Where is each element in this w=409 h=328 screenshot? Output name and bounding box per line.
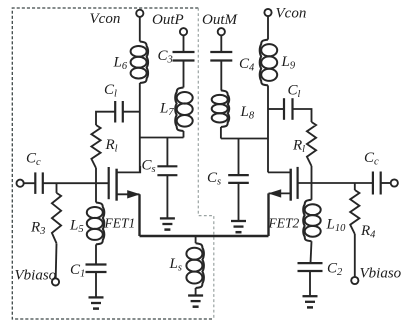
wire Ls tap — [195, 236, 197, 243]
svg-text:L5: L5 — [69, 218, 84, 236]
wire Rl-right to gate wire — [311, 166, 313, 183]
transistor FET2 gate bar — [297, 167, 299, 199]
ground below Cs right — [231, 221, 246, 232]
wire L10 to C2 — [311, 241, 312, 263]
wire Cs-left to ground — [166, 175, 168, 218]
svg-text:Rl: Rl — [292, 138, 305, 156]
wire R4 tap — [354, 183, 356, 190]
inductor L9 — [260, 40, 278, 86]
terminal Vbiaso right — [351, 277, 358, 284]
FET1 source arrow — [127, 190, 140, 198]
terminal Cc left — [17, 180, 24, 187]
svg-text:Vcon: Vcon — [90, 11, 121, 27]
terminal Vbiaso left — [52, 278, 59, 285]
ground below C1 — [89, 297, 104, 308]
wire gate wire right — [298, 182, 373, 184]
svg-text:Cl: Cl — [104, 82, 117, 100]
svg-text:L8: L8 — [240, 104, 255, 122]
wire L5 tap — [95, 183, 97, 202]
wire Cl-left to corner — [96, 112, 115, 125]
wire Cc-right to terminal — [381, 182, 391, 184]
inductor Ls — [186, 243, 204, 288]
transistor FET1 gate bar — [108, 167, 110, 199]
FET1 source lead — [117, 193, 140, 195]
wire L7 to junction line — [183, 131, 185, 138]
terminal Vcon left — [136, 10, 143, 17]
capacitor C2 — [298, 263, 323, 271]
svg-text:Vcon: Vcon — [276, 6, 307, 22]
inductor L5 — [87, 203, 105, 245]
capacitor C1 — [86, 265, 107, 273]
dashed boundary box left/top/bottom — [12, 8, 214, 319]
svg-text:FET2: FET2 — [268, 216, 300, 231]
wire Cs-right to ground — [238, 183, 240, 221]
terminal OutM — [218, 28, 225, 35]
wire C1 to ground — [95, 272, 97, 297]
transistor FET1 channel bar — [115, 169, 117, 201]
wire R3 tap — [56, 183, 58, 193]
wire left drain junction line — [140, 137, 184, 139]
svg-text:L9: L9 — [281, 54, 296, 72]
resistor Rl left — [91, 125, 100, 168]
terminal Vcon right — [264, 9, 271, 16]
wire OutM to C4 — [220, 35, 222, 52]
svg-text:C1: C1 — [70, 262, 85, 280]
capacitor Cs left — [157, 166, 177, 175]
wire Cs-left tap — [166, 138, 168, 167]
capacitor Cc right — [373, 172, 381, 195]
wire drain to Cl left — [123, 111, 140, 113]
svg-text:Cl: Cl — [288, 83, 301, 101]
FET2 source arrow — [268, 189, 281, 197]
wire source bus — [140, 235, 269, 237]
resistor R4 — [350, 190, 359, 234]
wire Cs-right tap — [238, 139, 240, 176]
svg-text:Cc: Cc — [26, 151, 41, 169]
terminal Cc right — [391, 179, 398, 186]
wire Vcon-left to L6 — [139, 17, 141, 42]
ground below Cs left — [160, 218, 175, 229]
wire L6 to drain corner (main left vertical) — [139, 83, 141, 172]
inductor L8 — [212, 90, 230, 127]
ground below C2 — [303, 296, 318, 307]
svg-text:R3: R3 — [30, 220, 45, 238]
wire Cl-right to corner — [293, 109, 312, 122]
capacitor C3 — [173, 52, 195, 61]
wire L5 to C1 — [95, 244, 97, 264]
wire L8 to junction line — [220, 127, 222, 139]
wire OutP to C3 — [183, 35, 185, 52]
wire gate wire left — [43, 182, 109, 184]
svg-text:C2: C2 — [327, 261, 343, 279]
svg-text:Rl: Rl — [105, 137, 118, 155]
wire C4 to L8 — [220, 61, 222, 91]
svg-text:FET1: FET1 — [104, 216, 136, 231]
svg-text:OutM: OutM — [202, 12, 239, 28]
wire Rl-left to gate wire — [95, 168, 97, 183]
svg-text:L10: L10 — [326, 217, 347, 235]
inductor L7 — [175, 88, 193, 132]
capacitor Cl right — [284, 98, 293, 120]
FET1 drain lead — [117, 166, 141, 172]
svg-text:L6: L6 — [113, 55, 128, 73]
svg-text:Cc: Cc — [364, 150, 379, 168]
terminal OutP — [180, 28, 187, 35]
wire C2 to ground — [309, 271, 311, 296]
inductor L10 — [303, 200, 321, 241]
wire Vcon-right to L9 — [267, 16, 269, 40]
capacitor Cs right — [228, 175, 249, 183]
dashed boundary notch — [198, 8, 214, 319]
wire L9 to drain corner (main right vertical) — [267, 85, 269, 172]
FET2 source lead — [269, 192, 291, 194]
svg-text:L7: L7 — [159, 101, 174, 119]
svg-text:OutP: OutP — [152, 12, 184, 28]
wire C3 to L7 — [183, 61, 185, 88]
svg-text:C4: C4 — [239, 56, 255, 74]
capacitor Cl left — [115, 101, 123, 123]
ground below Ls — [188, 296, 203, 307]
svg-text:Cs: Cs — [207, 170, 221, 188]
svg-text:R4: R4 — [360, 223, 376, 241]
wire L10 tap — [311, 183, 313, 200]
resistor Rl right — [307, 122, 316, 166]
wire Cc-left terminal to plates — [24, 182, 36, 184]
svg-text:C3: C3 — [158, 48, 173, 66]
wire right drain junction line — [221, 138, 268, 140]
svg-text:Cs: Cs — [142, 158, 156, 176]
capacitor C4 — [210, 52, 232, 61]
svg-text:Vbiaso: Vbiaso — [15, 268, 57, 284]
wire FET1 source down — [138, 194, 140, 236]
wire FET2 source down — [267, 193, 269, 236]
wire drain to Cl right — [268, 108, 284, 110]
transistor FET2 channel bar — [290, 169, 292, 201]
svg-text:Vbiaso: Vbiaso — [360, 266, 402, 282]
wire R3 to Vbiaso-left — [55, 243, 58, 278]
capacitor Cc left — [35, 172, 43, 194]
wire R4 to Vbiaso-right — [354, 234, 356, 277]
inductor L6 — [131, 42, 149, 84]
svg-text:Ls: Ls — [169, 256, 182, 274]
resistor R3 — [52, 193, 61, 243]
wire Ls to ground — [195, 288, 197, 296]
FET2 drain lead — [268, 171, 291, 173]
